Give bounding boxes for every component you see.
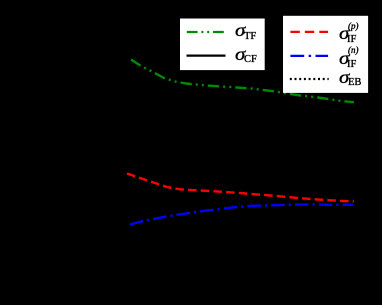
- curve sigma_IF(n) (blue dash-dot): [130, 204, 353, 224]
- label sigma_IF(p): [339, 24, 349, 42]
- label sigma_EB: [339, 68, 349, 86]
- legend box right: [283, 16, 368, 93]
- label sigma_TF: [235, 21, 245, 39]
- curve sigma_TF (green dash-dot-dot): [131, 60, 354, 103]
- curve sigma_IF(p) (red dashed): [127, 174, 354, 202]
- legend sample line sigma_IF(n): [290, 55, 328, 57]
- legend box left: [180, 19, 265, 71]
- legend sample line sigma_IF(p): [290, 31, 328, 33]
- label sigma_IF(n): [339, 49, 349, 67]
- legend sample line sigma_TF: [187, 31, 225, 33]
- label sigma_CF: [235, 45, 245, 63]
- legend sample line sigma_CF (black solid): [187, 54, 226, 56]
- legend sample line sigma_EB (black dotted): [290, 78, 329, 80]
